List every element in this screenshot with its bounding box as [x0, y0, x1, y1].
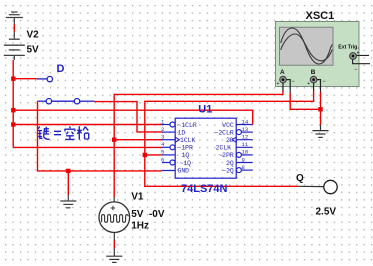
wire scope B+ stub (black): [313, 83, 315, 91]
svg-text:1CLK: 1CLK: [180, 137, 196, 144]
svg-text:V2: V2: [27, 29, 40, 40]
svg-text:2D: 2D: [226, 137, 234, 144]
wire 5V to ~1CLR pin 1: [13, 124, 162, 126]
svg-text:−: −: [291, 79, 295, 85]
svg-text:~1CLR: ~1CLR: [178, 122, 197, 129]
junction on ground rail: [66, 169, 70, 173]
pin leads left: [162, 122, 175, 171]
junction 5V rail at VCC branch: [11, 108, 15, 112]
svg-text:Q: Q: [296, 173, 304, 184]
scope screen: [280, 27, 334, 65]
label key = space (键 = 空格): [37, 126, 89, 140]
junction 1Q net at pin 5: [143, 153, 147, 157]
svg-text:+: +: [307, 81, 310, 87]
pin numbers right 14-8: [242, 118, 249, 171]
junction scope ground net: [318, 107, 322, 111]
svg-text:GND: GND: [178, 167, 190, 174]
svg-text:V1: V1: [131, 192, 144, 203]
Ext Trig pin stubs: [353, 55, 370, 63]
svg-text:_: _: [354, 65, 358, 71]
svg-text:−: −: [322, 79, 326, 85]
svg-text:~1PR: ~1PR: [178, 145, 194, 152]
wire junction down to ground: [320, 109, 322, 125]
svg-text:+: +: [277, 81, 280, 87]
wire ground to battery V2 top: [13, 24, 15, 32]
svg-text:~2CLR: ~2CLR: [215, 129, 234, 136]
svg-text:~1Q: ~1Q: [180, 160, 192, 167]
terminal A: [280, 76, 287, 83]
wire V1 bottom to ground: [113, 241, 115, 249]
wire scope A+ stub (black): [282, 83, 284, 91]
wire probe lead (black): [298, 185, 324, 187]
svg-text:5V: 5V: [27, 44, 40, 55]
wire 5V rail to switch top throw: [13, 78, 37, 80]
svg-text:11: 11: [242, 141, 249, 148]
wire 5V to ~1PR pin 4: [13, 146, 162, 148]
svg-text:12: 12: [242, 134, 249, 141]
IC U1 74LS74N: [161, 118, 253, 178]
svg-text:1D: 1D: [178, 129, 186, 136]
switch J1 (key = space): [38, 99, 95, 104]
wire scope A- to ground net: [286, 80, 290, 93]
svg-text:D: D: [57, 63, 65, 75]
pin labels left column: [178, 122, 197, 175]
wire switch common to 1D pin 2: [94, 102, 162, 132]
wire clock to 1CLK pin 3: [114, 139, 162, 141]
ground symbol GND3 (below V1): [106, 249, 122, 263]
chip body: [175, 118, 236, 178]
junction clock net at 1CLK branch: [112, 138, 116, 142]
probe Q circle: [324, 180, 337, 193]
oscilloscope XSC1: [276, 22, 371, 88]
scope body: [276, 22, 360, 87]
svg-text:8: 8: [242, 164, 245, 171]
wire clock net: V1 top to 1CLK and to scope channel A: [114, 91, 283, 198]
svg-text:U1: U1: [198, 104, 212, 116]
svg-text:1Hz: 1Hz: [131, 221, 149, 232]
svg-text:~2PR: ~2PR: [218, 152, 234, 159]
ground symbol GND2 (left, below rail): [67, 171, 69, 195]
svg-text:74LS74N: 74LS74N: [181, 183, 228, 195]
Ext Trig terminal: [350, 53, 357, 60]
pin labels right column: [215, 122, 234, 175]
pin leads right: [236, 125, 253, 173]
wire 5V to VCC pin 14: [13, 110, 253, 124]
svg-text:9: 9: [242, 156, 245, 163]
svg-text:~2Q: ~2Q: [222, 167, 234, 174]
terminal B: [310, 76, 317, 83]
sine trace 1: [281, 28, 333, 64]
svg-text:1Q: 1Q: [182, 152, 190, 159]
svg-text:A: A: [280, 69, 285, 76]
pin numbers left 1-6: [161, 118, 165, 163]
wire 1Q net: pin5 to scope B, and down to probe Q: [145, 91, 314, 187]
svg-text:XSC1: XSC1: [306, 10, 335, 22]
svg-text:3: 3: [161, 134, 164, 141]
wire 5V rail from battery bottom down left side: [12, 60, 14, 147]
clock triangles pins 3 and 11: [175, 137, 236, 142]
sine trace 2: [281, 34, 333, 61]
svg-text:Ext Trig.: Ext Trig.: [338, 44, 359, 50]
svg-text:2.5V: 2.5V: [316, 206, 337, 217]
svg-text:2: 2: [161, 126, 164, 133]
svg-text:5: 5: [161, 149, 164, 156]
svg-text:10: 10: [242, 149, 249, 156]
svg-text:14: 14: [242, 118, 249, 125]
svg-text:5V -0V: 5V -0V: [131, 209, 165, 220]
ground symbol GND4 (scope): [312, 125, 328, 137]
svg-text:13: 13: [242, 126, 249, 133]
battery V2: [4, 39, 25, 60]
svg-text:6: 6: [161, 156, 164, 163]
junction 5V rail at ~1CLR branch: [11, 122, 15, 126]
svg-text:VCC: VCC: [222, 122, 234, 129]
junction on 5V rail at node D branch: [11, 77, 15, 81]
wire switch bottom throw to ground rail: [38, 101, 163, 171]
switch top throw terminal (node D, open): [37, 76, 53, 81]
wire 1Q junction to pin 5: [145, 154, 162, 156]
svg-text:2Q: 2Q: [226, 160, 234, 167]
wire scope B- to ground net: [317, 80, 321, 92]
svg-text:2CLK: 2CLK: [216, 145, 232, 152]
clock source V1: [99, 197, 130, 241]
ground symbol (top-left, rotated 180, on battery + terminal): [6, 12, 23, 24]
svg-text:B: B: [311, 69, 316, 76]
